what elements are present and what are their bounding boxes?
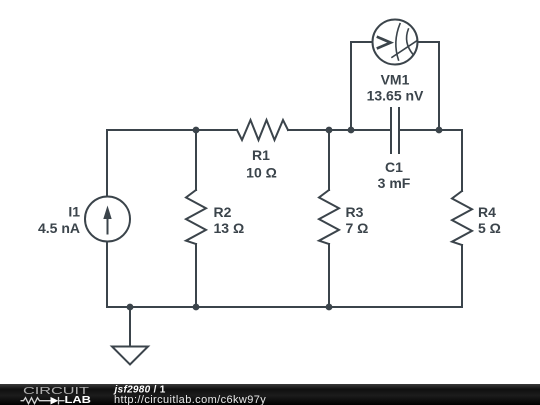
svg-text:VM1: VM1	[381, 72, 410, 88]
svg-text:I1: I1	[68, 204, 80, 220]
wire R2 bottom lead	[195, 244, 197, 307]
svg-text:7 Ω: 7 Ω	[346, 220, 369, 236]
svg-text:10 Ω: 10 Ω	[246, 165, 277, 181]
svg-text:http://circuitlab.com/c6kw97y: http://circuitlab.com/c6kw97y	[114, 394, 266, 405]
svg-text:13 Ω: 13 Ω	[214, 220, 245, 236]
svg-text:LAB: LAB	[65, 395, 92, 405]
resistor R4	[452, 191, 472, 245]
svg-text:R1: R1	[252, 147, 270, 163]
junction R2 top node	[193, 127, 200, 134]
svg-text:13.65 nV: 13.65 nV	[367, 88, 424, 104]
junction R3 bottom node	[326, 304, 333, 311]
junction ground node	[127, 304, 134, 311]
resistor R3	[319, 190, 339, 244]
ground	[112, 307, 148, 365]
svg-text:C1: C1	[385, 159, 403, 175]
wire left vertical upper	[106, 130, 108, 197]
capacitor C1 left plate	[390, 108, 392, 153]
svg-text:4.5 nA: 4.5 nA	[38, 220, 80, 236]
svg-text:R3: R3	[346, 204, 364, 220]
svg-text:3 mF: 3 mF	[378, 175, 411, 191]
wire R1 to node	[288, 129, 390, 131]
capacitor C1 right plate	[398, 108, 400, 153]
wire R3 top lead	[328, 130, 330, 190]
voltmeter VM1	[373, 20, 418, 65]
current source I1	[85, 197, 130, 242]
junction voltmeter right node	[436, 127, 443, 134]
footer bar	[0, 384, 540, 405]
junction R2 bottom node	[193, 304, 200, 311]
junction R3 top node	[326, 127, 333, 134]
wire R4 top lead	[461, 130, 463, 191]
svg-text:5 Ω: 5 Ω	[478, 220, 501, 236]
wire bottom horizontal	[107, 306, 462, 308]
logo resistor-diode line	[21, 397, 65, 405]
wire voltmeter right branch	[418, 42, 440, 130]
wire R4 bottom lead	[461, 245, 463, 307]
wire voltmeter left branch	[351, 42, 373, 130]
junction voltmeter left node	[348, 127, 355, 134]
resistor R1	[237, 120, 288, 140]
wire cap right to corner	[400, 129, 462, 131]
wire R3 bottom lead	[328, 244, 330, 307]
resistor R2	[186, 190, 206, 244]
svg-text:R2: R2	[214, 204, 232, 220]
wire left vertical lower	[106, 242, 108, 308]
wire R2 top lead	[195, 130, 197, 190]
wire top left horizontal	[107, 129, 237, 131]
svg-text:R4: R4	[478, 204, 496, 220]
